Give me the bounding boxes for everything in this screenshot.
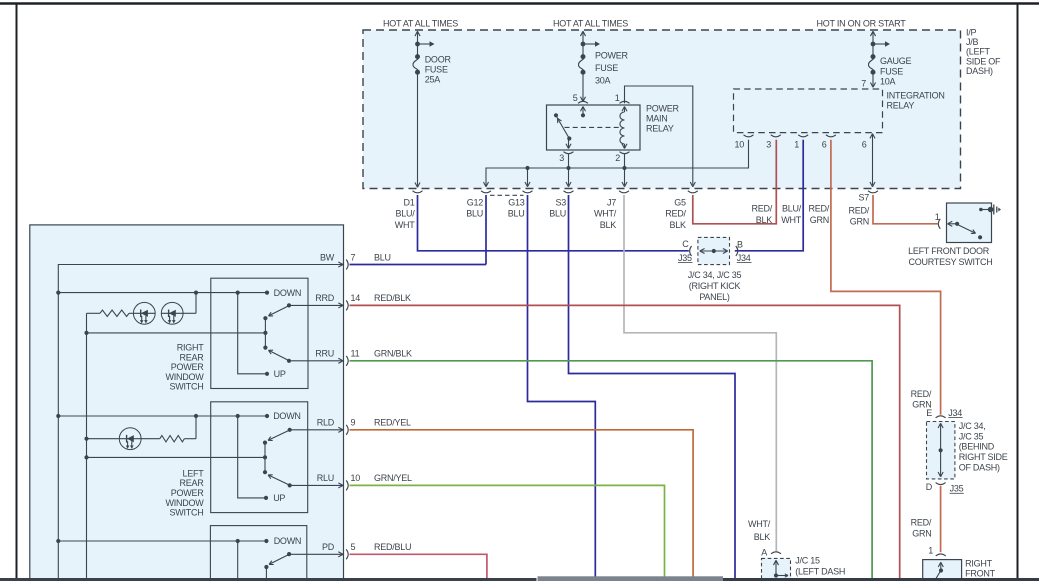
svg-text:5: 5 <box>351 542 356 552</box>
wire UP branch switch1 <box>238 293 267 374</box>
wire GRN/BLK <box>350 361 873 579</box>
svg-text:G12: G12 <box>467 197 484 207</box>
svg-text:1: 1 <box>615 93 620 103</box>
svg-text:WHT: WHT <box>395 220 415 230</box>
svg-text:OF DASH): OF DASH) <box>959 463 1000 473</box>
svg-text:(LEFT: (LEFT <box>966 47 991 57</box>
relay actuation dashed link <box>565 126 622 128</box>
junction connector J/C 34 J/C 35 behind right side of dash <box>927 422 955 479</box>
svg-text:HOT IN ON OR START: HOT IN ON OR START <box>816 18 906 28</box>
wire DOWN bus switch2 <box>58 415 267 417</box>
wire BW bus <box>58 265 343 579</box>
page frame right border <box>1017 4 1019 581</box>
svg-text:PANEL): PANEL) <box>699 292 730 302</box>
connector G5 <box>688 191 698 193</box>
svg-text:11: 11 <box>351 349 360 359</box>
svg-text:J/C 34,: J/C 34, <box>959 421 986 431</box>
svg-text:RRU: RRU <box>315 349 334 359</box>
connector pin 11 GRN/BLK <box>338 358 343 361</box>
wire pin2 down to J7 <box>624 154 626 186</box>
svg-text:COURTESY SWITCH: COURTESY SWITCH <box>909 257 993 267</box>
svg-text:RIGHT: RIGHT <box>177 343 205 353</box>
pin 1 integration relay <box>798 135 808 137</box>
svg-text:WHT: WHT <box>781 215 801 225</box>
svg-text:D1: D1 <box>403 197 414 207</box>
svg-text:S3: S3 <box>555 197 566 207</box>
svg-text:B: B <box>737 240 743 250</box>
svg-text:(BEHIND: (BEHIND <box>959 442 995 452</box>
svg-text:SWITCH: SWITCH <box>170 382 204 392</box>
pin 3 power main relay <box>564 152 574 154</box>
wire S3 BLU <box>569 195 736 578</box>
svg-text:7: 7 <box>861 79 866 89</box>
svg-text:WINDOW: WINDOW <box>166 372 205 382</box>
svg-text:D: D <box>926 482 933 492</box>
svg-text:BLU: BLU <box>549 209 566 219</box>
svg-text:9: 9 <box>351 418 356 428</box>
svg-text:PD: PD <box>322 542 335 552</box>
svg-text:RRD: RRD <box>315 293 334 303</box>
svg-text:J/C 34, J/C 35: J/C 34, J/C 35 <box>688 270 742 280</box>
svg-text:25A: 25A <box>425 75 441 85</box>
wire RED/GRN to right front switch <box>940 486 942 552</box>
svg-text:5: 5 <box>573 93 578 103</box>
wire G13 arrow <box>527 168 529 185</box>
wire DOWN bus switch3 <box>58 540 266 542</box>
svg-text:DOWN: DOWN <box>274 288 302 298</box>
switch1 common contacts <box>264 318 266 347</box>
rear power window switch panel box <box>30 225 344 581</box>
svg-text:BLU: BLU <box>374 252 391 262</box>
svg-text:GRN/YEL: GRN/YEL <box>374 473 412 483</box>
svg-text:RELAY: RELAY <box>887 101 915 111</box>
svg-text:INTEGRATION: INTEGRATION <box>887 90 945 100</box>
wire UP branch switch2 <box>238 416 266 498</box>
wire RRD <box>289 304 343 306</box>
svg-text:7: 7 <box>351 252 356 262</box>
svg-text:REAR: REAR <box>179 478 204 488</box>
svg-text:3: 3 <box>766 140 771 150</box>
svg-text:J7: J7 <box>607 197 616 207</box>
svg-text:MAIN: MAIN <box>646 114 668 124</box>
svg-text:GRN: GRN <box>912 529 931 539</box>
svg-text:SWITCH: SWITCH <box>170 508 204 518</box>
svg-text:6: 6 <box>822 140 827 150</box>
switch1 arm RRD <box>287 303 291 307</box>
svg-text:WHT/: WHT/ <box>594 209 617 219</box>
wire DOWN bus switch1 <box>58 292 267 294</box>
svg-text:GAUGE: GAUGE <box>880 56 912 66</box>
svg-text:GRN: GRN <box>850 217 869 227</box>
pin 6 integration relay <box>826 135 836 137</box>
svg-text:LEFT FRONT DOOR: LEFT FRONT DOOR <box>908 246 990 256</box>
svg-text:GRN: GRN <box>912 399 931 409</box>
svg-text:RED/: RED/ <box>848 206 869 216</box>
svg-text:14: 14 <box>351 293 361 303</box>
svg-text:DOWN: DOWN <box>273 411 301 421</box>
svg-text:RED/: RED/ <box>808 204 829 214</box>
pin 2 power main relay <box>620 152 630 154</box>
relay K2 INTEGRATION RELAY box <box>734 89 883 133</box>
svg-text:HOT AT ALL TIMES: HOT AT ALL TIMES <box>383 18 458 28</box>
svg-text:J35: J35 <box>950 484 964 494</box>
connector J7 <box>619 191 629 193</box>
switch SW3 power window switch box (partial) <box>210 526 306 581</box>
wire pin3 down to S3 <box>568 154 570 186</box>
svg-text:30A: 30A <box>595 76 611 86</box>
svg-text:POWER: POWER <box>171 488 205 498</box>
connector G12 <box>481 191 491 193</box>
connector D1 <box>413 191 423 193</box>
pin 1 courtesy switch <box>938 219 940 229</box>
switch3 common contact <box>264 565 268 569</box>
junction pin3 bus <box>566 166 570 170</box>
svg-text:FUSE: FUSE <box>425 65 448 75</box>
svg-text:HOT AT ALL TIMES: HOT AT ALL TIMES <box>553 18 628 28</box>
wire G12 BLU <box>485 195 487 265</box>
junction pin2 bus <box>622 166 626 170</box>
svg-text:RED/: RED/ <box>911 518 932 528</box>
pin 10 integration relay <box>744 135 754 137</box>
wire RED/BLU <box>350 554 487 578</box>
svg-text:G5: G5 <box>674 197 686 207</box>
svg-text:(LEFT DASH: (LEFT DASH <box>795 567 845 577</box>
svg-text:RIGHT SIDE: RIGHT SIDE <box>959 452 1008 462</box>
bus2 vertical <box>86 333 88 579</box>
svg-text:BLU/: BLU/ <box>395 209 415 219</box>
svg-text:J/B: J/B <box>966 37 979 47</box>
connector pin 7 BLU <box>338 262 343 265</box>
node bus junctions <box>56 291 60 295</box>
svg-text:J35: J35 <box>678 253 692 263</box>
svg-text:RED/: RED/ <box>751 204 772 214</box>
svg-text:10: 10 <box>734 140 744 150</box>
svg-text:S7: S7 <box>858 193 869 203</box>
svg-text:J/C 35: J/C 35 <box>959 431 984 441</box>
pin 1 power main relay <box>620 101 630 103</box>
svg-text:RIGHT: RIGHT <box>965 559 993 569</box>
svg-text:RED/YEL: RED/YEL <box>374 418 411 428</box>
switch2 arm RLD <box>288 428 292 432</box>
svg-text:I/P: I/P <box>966 28 977 38</box>
wire RLU <box>290 484 343 486</box>
wire RED/GRN integration pin6 to J/C34 pin E <box>831 140 941 415</box>
connector pin 9 RED/YEL <box>338 427 343 430</box>
svg-text:WHT/: WHT/ <box>748 519 771 529</box>
wire pin1 to G5 loop <box>625 86 693 185</box>
switch3 arm PD <box>287 552 291 556</box>
svg-text:A: A <box>761 547 767 557</box>
page frame left border <box>16 4 18 581</box>
svg-text:2: 2 <box>615 153 620 163</box>
bottom clipped row bar <box>0 578 537 581</box>
svg-text:RELAY: RELAY <box>646 124 674 134</box>
svg-text:UP: UP <box>273 493 285 503</box>
page frame top border <box>0 2 1039 4</box>
svg-text:DOWN: DOWN <box>274 536 302 546</box>
svg-text:POWER: POWER <box>171 362 205 372</box>
svg-text:1: 1 <box>935 212 940 222</box>
svg-text:J34: J34 <box>948 408 962 418</box>
svg-text:BLK: BLK <box>754 532 771 542</box>
fuse F2 POWER FUSE 30A <box>580 31 583 36</box>
switch SW4 left front door courtesy switch <box>947 203 992 243</box>
svg-text:DOOR: DOOR <box>425 55 452 65</box>
svg-text:6: 6 <box>862 140 867 150</box>
wire PD <box>289 553 343 555</box>
relay K1 POWER MAIN RELAY box <box>547 105 641 150</box>
wire GRN/YEL <box>350 485 665 578</box>
fuse F3 GAUGE FUSE 10A <box>870 31 873 36</box>
wire switch2 common feed <box>87 456 266 458</box>
LED D1a switch1 <box>133 302 155 324</box>
svg-text:REAR: REAR <box>179 352 204 362</box>
svg-text:BLU: BLU <box>466 209 483 219</box>
svg-text:BLK: BLK <box>600 220 617 230</box>
connector pin 5 RED/BLU <box>338 552 343 555</box>
svg-text:FUSE: FUSE <box>595 63 618 73</box>
svg-text:BLK: BLK <box>670 220 687 230</box>
connector pin 10 GRN/YEL <box>338 483 343 486</box>
svg-text:3: 3 <box>559 153 564 163</box>
wire switch1 common feed <box>87 332 266 334</box>
connector pin 14 RED/BLK <box>338 303 343 306</box>
junction connector J/C 34 J/C 35 right kick panel <box>698 237 730 264</box>
svg-text:GRN/BLK: GRN/BLK <box>374 349 412 359</box>
wire UP branch switch3 <box>237 541 239 578</box>
resistor switch2 illumination <box>142 438 160 440</box>
svg-text:WINDOW: WINDOW <box>166 498 205 508</box>
connector S3 <box>564 191 574 193</box>
pin 3 integration relay <box>771 135 781 137</box>
svg-text:1: 1 <box>928 546 933 556</box>
svg-text:DASH): DASH) <box>966 66 993 76</box>
wire S7 RED/GRN to courtesy switch <box>873 195 938 224</box>
svg-text:C: C <box>682 239 689 249</box>
svg-text:10A: 10A <box>880 76 896 86</box>
svg-text:LEFT: LEFT <box>182 468 204 478</box>
svg-text:J34: J34 <box>737 253 751 263</box>
svg-text:UP: UP <box>274 369 286 379</box>
junction G13 bus <box>525 166 529 170</box>
switch1 arm RRU <box>287 359 291 363</box>
courtesy switch arm <box>958 225 976 234</box>
svg-text:J/C 15: J/C 15 <box>795 556 820 566</box>
svg-text:RLD: RLD <box>317 418 335 428</box>
wire BLU to G12 <box>350 264 487 266</box>
switch SW2 left rear power window switch box <box>211 402 308 513</box>
svg-text:POWER: POWER <box>646 104 680 114</box>
wire RRU <box>289 360 343 362</box>
fuse F1 DOOR FUSE 25A <box>415 31 418 36</box>
wire RED/BLK <box>350 305 900 578</box>
switch SW1 right rear power window switch box <box>211 278 308 388</box>
connector G13 housing dashed link <box>490 194 524 196</box>
svg-text:RED/BLU: RED/BLU <box>374 542 411 552</box>
wire BLU/WHT integration pin1 to J/C34 pin B <box>735 140 803 251</box>
connector G13 <box>523 191 533 193</box>
svg-text:1: 1 <box>794 140 799 150</box>
resistor switch1 illumination <box>86 313 88 333</box>
svg-text:RED/BLK: RED/BLK <box>374 293 411 303</box>
svg-text:SIDE OF: SIDE OF <box>966 56 1001 66</box>
svg-text:10: 10 <box>351 473 361 483</box>
svg-text:RED/: RED/ <box>665 209 686 219</box>
wire RED/YEL <box>350 430 694 579</box>
courtesy switch plunger contact <box>979 208 983 212</box>
LED D1b switch1 <box>161 302 183 324</box>
wire G13 BLU <box>528 195 596 578</box>
wire J7 WHT/BLK to J/C15 <box>624 195 776 551</box>
svg-text:BW: BW <box>320 252 335 262</box>
bus wire to integration relay pin 10 <box>486 140 749 187</box>
relay coil <box>620 112 625 144</box>
svg-text:GRN: GRN <box>810 215 829 225</box>
svg-text:E: E <box>926 408 932 418</box>
svg-text:BLU/: BLU/ <box>782 204 802 214</box>
relay switch contact <box>554 113 558 117</box>
svg-text:BLU: BLU <box>508 209 525 219</box>
wire D1 BLU/WHT to J/C34 pin C <box>418 195 689 251</box>
wire RLD <box>290 429 343 431</box>
connector S7 <box>868 191 878 193</box>
LED D2 switch2 <box>84 437 88 441</box>
switch2 common contacts <box>264 443 266 473</box>
svg-text:(RIGHT KICK: (RIGHT KICK <box>689 281 741 291</box>
wire G5 RED/BLK to integration relay pin 3 <box>693 140 777 224</box>
svg-text:RED/: RED/ <box>911 389 932 399</box>
svg-text:FRONT: FRONT <box>965 569 995 579</box>
svg-text:G13: G13 <box>508 197 525 207</box>
svg-text:RLU: RLU <box>317 473 334 483</box>
svg-text:POWER: POWER <box>595 51 629 61</box>
pin 5 power main relay <box>578 101 588 103</box>
switch2 arm RLU <box>288 483 292 487</box>
I/P J/B junction block box <box>363 30 961 189</box>
svg-text:FUSE: FUSE <box>880 66 903 76</box>
